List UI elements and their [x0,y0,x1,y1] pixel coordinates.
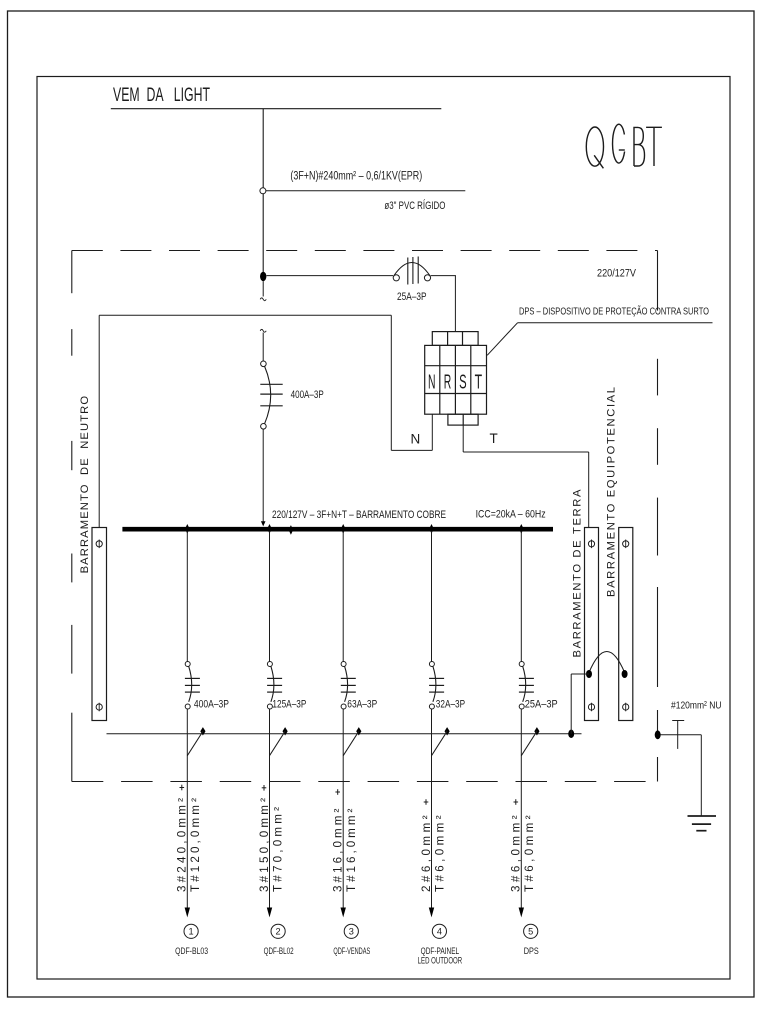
svg-text:T: T [475,372,483,394]
svg-text:25A–3P: 25A–3P [525,698,558,710]
wire neutral diagonal tap 4 [432,731,448,755]
svg-text:400A–3P: 400A–3P [194,698,229,710]
wire feeder 1 drop [186,709,188,908]
svg-text:32A–3P: 32A–3P [436,698,465,710]
node neutral terra junction [568,730,574,738]
terminal terra bottom [588,704,594,710]
junction cross mark 4 [424,801,429,803]
arrowhead feed to busbar [261,521,266,526]
svg-text:T: T [490,431,498,446]
node cable spec tap [260,188,266,194]
breaker feeder 400A-3P [185,662,200,710]
wire feeder 4 to breaker [431,531,433,661]
svg-text:400A–3P: 400A–3P [291,389,324,401]
arrowhead feeder 2 [267,908,272,918]
arrowhead feeder 5 [519,908,524,918]
wire DPS N terminal [431,414,433,450]
node bond left [586,670,592,678]
terminal neutro bottom [96,704,102,710]
node neutral tap 4 [445,727,450,735]
cable tap mark [672,720,684,722]
node main junction [260,272,266,281]
leader line DPS underline [518,322,713,324]
node busbar tap 3 [341,524,346,534]
leader line cable spec [266,190,465,192]
wire node to break [262,281,264,296]
wire incoming supply line [111,108,442,110]
panel enclosure dashed border [72,251,658,782]
svg-text:N: N [428,372,436,394]
svg-text:BARRAMENTO EQUIPOTENCIAL: BARRAMENTO EQUIPOTENCIAL [605,387,617,597]
wire breaker to busbar [262,429,264,522]
svg-text:125A–3P: 125A–3P [272,698,306,710]
node busbar tap 1 [185,524,190,534]
node bond right [622,670,628,678]
svg-text:1: 1 [189,927,194,937]
svg-text:5: 5 [528,927,533,937]
breaker feeder 25A-3P [519,662,534,710]
wire node to fuse [266,275,393,277]
surge protector DPS block [425,332,487,426]
svg-text:#120mm² NU: #120mm² NU [671,701,722,712]
wire neutral diagonal tap 1 [187,731,203,755]
svg-text:25A–3P: 25A–3P [397,291,427,303]
wire feeder 2 drop [269,709,271,908]
svg-text:2#6,0mm²: 2#6,0mm² [420,815,433,892]
title QGBT [586,124,662,168]
wire neutral jog [391,449,432,451]
ground electrode [688,815,717,817]
node busbar tap 4 [429,524,434,534]
wire feeder 5 drop [520,709,522,908]
wire feeder 3 to breaker [342,531,344,661]
wire fuse to DPS drop [431,275,456,277]
cable break squiggle top [260,298,266,301]
node neutral tap 1 [200,727,205,735]
wire feeder 4 drop [431,709,433,908]
wire feeder 2 to breaker [269,531,271,661]
wire T drop to terra bar [588,452,590,528]
node neutral tap 3 [356,727,361,735]
svg-text:LED OUTDOOR: LED OUTDOOR [418,956,463,966]
svg-text:S: S [459,372,467,394]
wire neutral bus line [107,733,582,735]
svg-text:DPS – DISPOSITIVO DE PROTEÇÃO: DPS – DISPOSITIVO DE PROTEÇÃO CONTRA SUR… [519,305,709,318]
wire neutral to bar [98,315,100,527]
terminal equi bottom [623,704,629,710]
svg-text:220/127V: 220/127V [597,268,637,280]
wire feeder 3 drop [342,709,344,908]
node neutral tap 5 [534,727,539,735]
node busbar tap 2 [267,524,272,534]
node circuit number 4 [432,924,446,938]
wire neutral horizontal [99,314,391,316]
terminal neutro top [96,541,102,547]
svg-text:63A–3P: 63A–3P [347,698,377,710]
breaker feeder 32A-3P [429,662,444,710]
svg-text:T#6,0mm²: T#6,0mm² [433,815,446,892]
svg-text:3: 3 [349,927,354,937]
wire bond to neutral line [571,673,589,675]
svg-text:DPS: DPS [524,946,539,956]
svg-text:QDF-VENDAS: QDF-VENDAS [333,946,370,956]
leader line DPS diagonal [487,323,517,356]
arrowhead feeder 3 [341,908,346,918]
busbar equipotencial bar [619,528,633,721]
wire neutral diagonal tap 2 [270,731,286,755]
arrowhead feeder 4 [429,908,434,918]
svg-text:220/127V – 3F+N+T – BARRAMENTO: 220/127V – 3F+N+T – BARRAMENTO COBRE [272,509,446,521]
wire T horizontal [463,451,589,453]
junction cross mark 2 [262,787,267,789]
junction cross mark 1 [180,787,185,789]
wire feeder 1 to breaker [186,531,188,661]
svg-text:QDF-BL03: QDF-BL03 [175,946,208,956]
svg-text:ø3" PVC RÍGIDO: ø3" PVC RÍGIDO [384,199,445,212]
cable break squiggle bottom [260,329,266,332]
node circuit number 1 [184,924,198,938]
node circuit number 2 [271,924,285,938]
wire main feed drop [262,109,264,273]
arrowhead feeder 1 [185,908,190,918]
wire feeder 5 to breaker [520,531,522,661]
svg-text:QDF-PAINEL: QDF-PAINEL [421,946,460,956]
wire break to breaker [262,333,264,362]
border frame inner [37,77,730,980]
svg-text:2: 2 [276,927,281,937]
wire neutral diagonal tap 3 [343,731,359,755]
junction cross mark 3 [335,791,340,793]
wire earth run [661,734,702,736]
node enclosure earth tap [655,730,661,739]
fuse-switch 25A-3P [393,257,430,285]
busbar terra bar [585,528,599,721]
node busbar tap 5 [519,524,524,534]
wire neutral drop [390,315,392,450]
wire neutral diagonal tap 5 [521,731,537,755]
svg-text:N: N [411,432,421,447]
breaker feeder 125A-3P [267,662,282,710]
node neutral tap 2 [283,727,288,735]
wire DPS T terminal [462,425,464,452]
junction cross mark 5 [514,801,519,803]
node circuit number 5 [524,924,538,938]
svg-text:T#6,0mm²: T#6,0mm² [523,815,536,892]
svg-text:3#6,0mm²: 3#6,0mm² [510,815,523,892]
wire terra equi bond arc [589,652,625,673]
terminal equi top [623,541,629,547]
busbar neutro bar [92,528,107,721]
svg-text:BARRAMENTO DE TERRA: BARRAMENTO DE TERRA [571,489,583,658]
breaker 400A-3P main [260,361,282,429]
busbar 220/127V copper [122,527,553,532]
svg-text:QDF-BL02: QDF-BL02 [264,946,294,956]
svg-text:ICC=20kA – 60Hz: ICC=20kA – 60Hz [476,508,546,520]
svg-text:4: 4 [437,927,442,937]
breaker feeder 63A-3P [341,662,356,710]
node busbar spare [289,525,294,535]
terminal terra top [588,541,594,547]
svg-text:(3F+N)#240mm² – 0,6/1KV(EPR): (3F+N)#240mm² – 0,6/1KV(EPR) [290,168,422,182]
svg-text:VEM DA LIGHT: VEM DA LIGHT [113,84,210,106]
svg-text:R: R [444,372,452,394]
node circuit number 3 [344,924,358,938]
